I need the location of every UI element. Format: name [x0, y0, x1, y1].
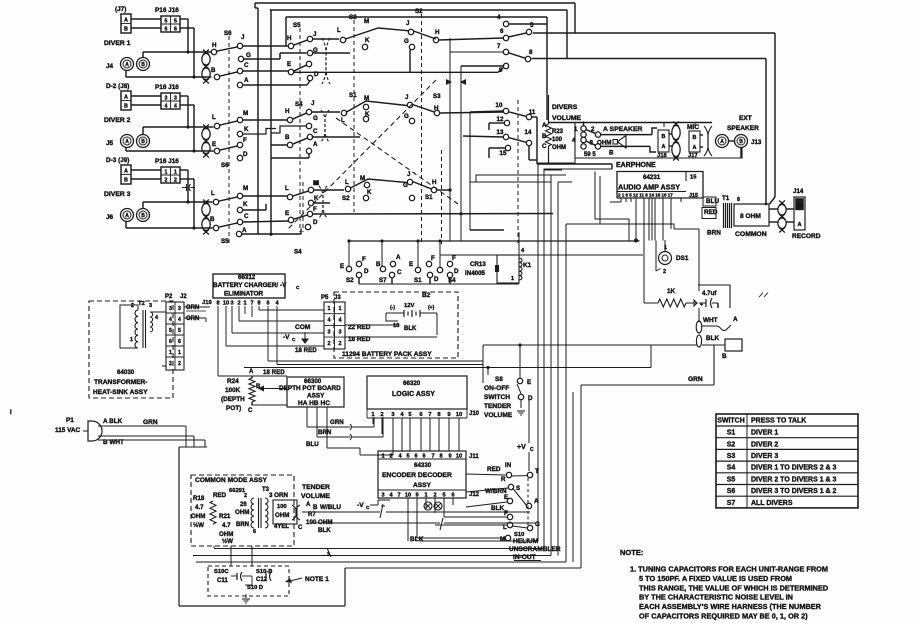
- svg-text:3: 3: [230, 301, 233, 307]
- svg-text:14: 14: [525, 129, 532, 136]
- svg-text:H: H: [287, 35, 292, 42]
- svg-text:W/BLU: W/BLU: [320, 504, 341, 511]
- svg-text:E: E: [287, 61, 291, 68]
- svg-text:8: 8: [439, 454, 442, 460]
- svg-text:GRN: GRN: [330, 419, 344, 426]
- svg-text:H: H: [212, 42, 217, 49]
- svg-text:7: 7: [497, 43, 501, 50]
- svg-text:2: 2: [339, 341, 342, 347]
- svg-text:B: B: [376, 261, 381, 268]
- svg-text:9: 9: [415, 493, 418, 499]
- svg-text:ELIMINATOR: ELIMINATOR: [224, 291, 264, 298]
- svg-text:SPEAKER: SPEAKER: [727, 125, 759, 132]
- svg-text:J4: J4: [106, 63, 114, 70]
- svg-text:1: 1: [178, 350, 181, 356]
- svg-text:K: K: [367, 189, 372, 196]
- svg-text:J19: J19: [202, 300, 212, 306]
- svg-text:ENCODER DECODER: ENCODER DECODER: [382, 472, 452, 479]
- svg-text:B: B: [722, 353, 727, 360]
- svg-text:18 RED: 18 RED: [295, 347, 317, 354]
- svg-text:P16 J16: P16 J16: [155, 158, 179, 165]
- svg-text:B: B: [141, 213, 145, 219]
- svg-text:VOLUME: VOLUME: [301, 493, 331, 500]
- svg-text:DIVER 2 TO DIVERS 1 & 3: DIVER 2 TO DIVERS 1 & 3: [751, 476, 837, 483]
- svg-text:A: A: [313, 141, 318, 148]
- svg-text:OHM: OHM: [191, 513, 205, 520]
- svg-text:B: B: [124, 104, 128, 110]
- svg-text:G: G: [535, 521, 540, 528]
- svg-text:OHM: OHM: [552, 145, 566, 151]
- svg-text:P16 J16: P16 J16: [155, 84, 179, 91]
- svg-text:3: 3: [165, 96, 168, 102]
- svg-text:S1: S1: [727, 430, 736, 437]
- svg-text:ORN: ORN: [186, 305, 199, 311]
- svg-text:7: 7: [428, 412, 431, 418]
- svg-text:D-3 (J9): D-3 (J9): [106, 157, 129, 164]
- svg-text:2: 2: [433, 493, 436, 499]
- svg-text:D-2 (J8): D-2 (J8): [106, 83, 129, 90]
- svg-text:64231: 64231: [643, 174, 661, 181]
- svg-text:66300: 66300: [304, 378, 322, 385]
- svg-text:M: M: [243, 185, 248, 192]
- svg-text:GRN: GRN: [143, 419, 158, 426]
- svg-text:A: A: [242, 227, 247, 234]
- svg-text:4: 4: [497, 14, 501, 21]
- svg-text:115 VAC: 115 VAC: [55, 427, 80, 434]
- svg-text:W/BRN: W/BRN: [485, 488, 507, 495]
- svg-text:BLK: BLK: [706, 335, 720, 342]
- svg-text:A: A: [534, 498, 539, 505]
- svg-text:6: 6: [451, 493, 454, 499]
- svg-text:½W: ½W: [222, 538, 233, 545]
- svg-text:ORN: ORN: [186, 316, 199, 322]
- svg-text:B: B: [662, 134, 666, 140]
- svg-text:A SPEAKER: A SPEAKER: [603, 126, 642, 133]
- svg-text:2: 2: [237, 301, 240, 307]
- svg-text:R24: R24: [227, 378, 239, 385]
- svg-text:E: E: [409, 261, 413, 268]
- svg-text:LOGIC ASSY: LOGIC ASSY: [392, 391, 435, 398]
- svg-text:DEPTH POT BOARD: DEPTH POT BOARD: [279, 385, 341, 392]
- svg-text:1: 1: [174, 170, 177, 176]
- svg-text:J13: J13: [751, 139, 762, 146]
- svg-text:A: A: [306, 502, 311, 508]
- svg-text:POT): POT): [226, 405, 241, 412]
- svg-text:ASSY: ASSY: [413, 482, 432, 489]
- svg-text:BLU: BLU: [306, 441, 319, 448]
- svg-text:TRANSFORMER-: TRANSFORMER-: [94, 379, 147, 386]
- svg-text:HELIUM: HELIUM: [513, 538, 539, 545]
- svg-text:T2: T2: [138, 301, 145, 307]
- svg-text:1: 1: [243, 301, 246, 307]
- svg-text:2 1 8 5 12 11 8 14 16 16 17: 2 1 8 5 12 11 8 14 16 16 17: [618, 193, 673, 198]
- svg-text:S4: S4: [294, 249, 302, 256]
- svg-text:B: B: [798, 203, 802, 209]
- svg-text:S2: S2: [415, 8, 423, 15]
- svg-text:A: A: [733, 316, 738, 323]
- svg-text:BLK: BLK: [491, 505, 505, 512]
- svg-text:EARPHONE: EARPHONE: [616, 162, 656, 169]
- svg-text:5: 5: [530, 22, 534, 29]
- svg-text:S1: S1: [349, 92, 357, 99]
- svg-text:B: B: [693, 135, 697, 141]
- svg-text:8 OHM: 8 OHM: [740, 213, 761, 220]
- svg-text:A: A: [124, 18, 128, 24]
- svg-text:A: A: [720, 139, 724, 145]
- svg-text:7: 7: [250, 301, 253, 307]
- svg-text:(DEPTH: (DEPTH: [221, 396, 245, 403]
- svg-text:P5: P5: [321, 295, 329, 301]
- svg-text:59 5: 59 5: [584, 152, 596, 158]
- svg-text:-V: -V: [283, 334, 290, 341]
- svg-text:5: 5: [406, 454, 409, 460]
- svg-text:R23: R23: [552, 129, 564, 135]
- svg-text:100K: 100K: [225, 387, 241, 394]
- svg-text:4.7uf: 4.7uf: [702, 290, 717, 297]
- svg-text:J6: J6: [106, 214, 114, 221]
- svg-text:F: F: [431, 255, 435, 262]
- svg-text:2: 2: [244, 493, 247, 499]
- svg-text:A BLK: A BLK: [103, 418, 123, 425]
- svg-text:66320: 66320: [403, 380, 421, 387]
- svg-text:BY THE CHARACTERISTIC NOISE LE: BY THE CHARACTERISTIC NOISE LEVEL IN: [639, 593, 793, 602]
- svg-text:CR13: CR13: [470, 261, 486, 268]
- svg-text:S5: S5: [727, 476, 736, 483]
- svg-text:3: 3: [328, 329, 331, 335]
- svg-text:K: K: [365, 37, 370, 44]
- svg-text:(-): (-): [390, 305, 395, 311]
- svg-text:64330: 64330: [414, 462, 432, 469]
- svg-text:G: G: [404, 38, 409, 45]
- svg-text:IN4005: IN4005: [465, 270, 486, 277]
- svg-text:M: M: [500, 536, 505, 543]
- svg-text:13: 13: [497, 129, 504, 136]
- svg-text:B: B: [124, 178, 128, 184]
- svg-text:26: 26: [240, 502, 247, 508]
- svg-text:4: 4: [155, 315, 158, 321]
- svg-text:6: 6: [165, 27, 168, 33]
- svg-text:2: 2: [165, 178, 168, 184]
- svg-text:DIVER 2: DIVER 2: [751, 441, 778, 448]
- svg-text:BLK: BLK: [318, 527, 331, 534]
- svg-text:BRN: BRN: [236, 522, 249, 528]
- svg-text:D: D: [313, 219, 318, 226]
- svg-text:S10 D: S10 D: [247, 585, 263, 591]
- svg-text:M: M: [243, 110, 248, 117]
- svg-text:R: R: [501, 476, 506, 483]
- svg-text:S7: S7: [727, 500, 736, 507]
- svg-text:J: J: [405, 94, 409, 101]
- svg-text:T: T: [535, 468, 539, 475]
- svg-text:G: G: [313, 115, 318, 122]
- svg-text:2: 2: [131, 303, 134, 309]
- svg-text:E: E: [340, 263, 344, 270]
- svg-text:ON-OFF: ON-OFF: [484, 385, 509, 392]
- svg-text:C: C: [248, 408, 253, 414]
- svg-text:R18: R18: [193, 495, 205, 502]
- svg-text:10: 10: [456, 412, 462, 418]
- svg-text:A: A: [124, 95, 128, 101]
- svg-text:C: C: [530, 447, 534, 453]
- svg-text:J: J: [313, 31, 317, 38]
- svg-text:NOTE 1: NOTE 1: [305, 576, 329, 583]
- svg-text:A: A: [124, 169, 128, 175]
- svg-text:11294 BATTERY PACK ASSY: 11294 BATTERY PACK ASSY: [342, 351, 432, 358]
- svg-text:4.7: 4.7: [195, 504, 204, 511]
- svg-text:S6: S6: [727, 488, 736, 495]
- svg-text:F: F: [243, 137, 247, 144]
- svg-text:8: 8: [216, 301, 219, 307]
- svg-text:TENDER: TENDER: [302, 484, 330, 491]
- svg-text:M: M: [364, 18, 369, 25]
- svg-text:C: C: [366, 505, 370, 511]
- svg-text:3: 3: [178, 306, 181, 312]
- svg-text:4: 4: [178, 317, 181, 323]
- svg-text:J10: J10: [469, 411, 480, 417]
- svg-text:AUDIO AMP ASSY: AUDIO AMP ASSY: [618, 183, 680, 192]
- svg-text:6: 6: [174, 27, 177, 33]
- svg-text:RECORD: RECORD: [792, 233, 821, 240]
- svg-text:64030: 64030: [117, 369, 135, 376]
- svg-text:L: L: [345, 179, 349, 186]
- svg-text:S3: S3: [727, 453, 736, 460]
- svg-text:J: J: [406, 20, 410, 27]
- svg-text:S6: S6: [221, 162, 229, 169]
- svg-text:J: J: [407, 171, 411, 178]
- svg-text:(+): (+): [428, 305, 435, 311]
- svg-text:6: 6: [169, 339, 172, 345]
- svg-text:M: M: [313, 180, 318, 187]
- svg-text:66312: 66312: [238, 274, 256, 281]
- svg-text:B: B: [210, 216, 215, 223]
- svg-text:SWITCH: SWITCH: [484, 394, 510, 401]
- svg-text:BLK: BLK: [410, 536, 424, 543]
- svg-text:J5: J5: [106, 140, 114, 147]
- svg-text:K: K: [244, 126, 249, 133]
- svg-text:G: G: [404, 113, 409, 120]
- svg-text:4: 4: [339, 318, 342, 324]
- svg-text:1: 1: [511, 276, 514, 282]
- svg-text:9: 9: [499, 67, 503, 74]
- svg-text:MIC: MIC: [687, 124, 699, 131]
- svg-text:1: 1: [381, 454, 384, 460]
- svg-text:L: L: [212, 114, 216, 121]
- svg-text:P16 J16: P16 J16: [155, 7, 179, 14]
- svg-text:R21: R21: [219, 513, 231, 520]
- svg-text:1: 1: [328, 306, 331, 312]
- svg-text:S1: S1: [425, 194, 433, 201]
- svg-text:J2: J2: [180, 294, 187, 300]
- svg-text:K1: K1: [523, 262, 532, 269]
- svg-text:5: 5: [178, 328, 181, 334]
- svg-text:2: 2: [174, 178, 177, 184]
- svg-text:A: A: [797, 222, 801, 228]
- svg-text:COM: COM: [295, 324, 311, 331]
- svg-text:B2: B2: [422, 292, 431, 299]
- svg-text:S4: S4: [448, 277, 456, 284]
- svg-text:+V: +V: [517, 444, 526, 451]
- svg-text:15: 15: [690, 175, 697, 181]
- svg-text:GRN: GRN: [688, 376, 703, 383]
- svg-text:H: H: [435, 29, 440, 36]
- svg-text:J18: J18: [657, 153, 667, 159]
- svg-text:COMMON MODE ASSY: COMMON MODE ASSY: [195, 477, 268, 484]
- svg-text:L: L: [211, 190, 215, 197]
- svg-text:S2: S2: [342, 195, 350, 202]
- svg-text:D: D: [434, 276, 439, 283]
- svg-text:A: A: [125, 213, 129, 219]
- svg-text:HEAT-SINK ASSY: HEAT-SINK ASSY: [93, 389, 148, 396]
- svg-text:E: E: [527, 379, 531, 386]
- svg-text:2: 2: [328, 341, 331, 347]
- svg-text:A: A: [662, 144, 666, 150]
- svg-text:RED: RED: [213, 492, 227, 499]
- svg-text:C: C: [397, 269, 402, 276]
- svg-text:S2: S2: [727, 441, 736, 448]
- svg-text:2: 2: [380, 412, 383, 418]
- svg-text:A: A: [125, 62, 129, 68]
- svg-text:THIS RANGE, THE VALUE OF WHICH: THIS RANGE, THE VALUE OF WHICH IS DETERM…: [639, 583, 828, 592]
- svg-text:5: 5: [169, 328, 172, 334]
- svg-text:D: D: [364, 268, 369, 275]
- svg-text:S: S: [516, 485, 520, 492]
- svg-text:J12: J12: [469, 492, 480, 498]
- svg-text:100: 100: [277, 504, 287, 510]
- svg-text:E: E: [285, 210, 289, 217]
- svg-text:3: 3: [149, 303, 152, 309]
- svg-text:D: D: [243, 151, 248, 158]
- svg-text:H: H: [285, 108, 290, 115]
- svg-text:COMMON: COMMON: [735, 231, 767, 238]
- svg-text:6: 6: [422, 454, 425, 460]
- svg-text:6: 6: [178, 339, 181, 345]
- svg-text:S4: S4: [727, 465, 736, 472]
- svg-text:OHM: OHM: [275, 512, 289, 519]
- svg-text:S6: S6: [224, 30, 232, 37]
- svg-text:1: 1: [130, 337, 133, 343]
- svg-text:D: D: [454, 268, 459, 275]
- svg-text:B: B: [141, 62, 145, 68]
- svg-text:T1: T1: [722, 195, 730, 202]
- svg-text:VOLUME: VOLUME: [484, 412, 513, 419]
- svg-text:BLK: BLK: [404, 326, 417, 332]
- svg-text:L: L: [285, 185, 289, 192]
- svg-text:10: 10: [496, 102, 503, 109]
- svg-text:C: C: [244, 213, 249, 220]
- svg-text:8: 8: [257, 301, 260, 307]
- svg-text:C11: C11: [217, 578, 228, 584]
- svg-text:8: 8: [737, 197, 740, 203]
- svg-text:15: 15: [500, 150, 507, 157]
- svg-text:B: B: [313, 504, 318, 511]
- svg-text:1. TUNING CAPACITORS FOR EACH: 1. TUNING CAPACITORS FOR EACH UNIT-RANGE…: [630, 565, 828, 574]
- svg-text:F: F: [452, 255, 456, 262]
- svg-text:4: 4: [169, 317, 172, 323]
- svg-text:DIVER 1: DIVER 1: [751, 430, 778, 437]
- svg-text:EACH ASSEMBLY'S WIRE HARNESS (: EACH ASSEMBLY'S WIRE HARNESS (THE NUMBER: [639, 602, 822, 611]
- svg-text:HA HB HC: HA HB HC: [298, 400, 330, 407]
- svg-text:A: A: [396, 254, 401, 261]
- svg-text:3: 3: [174, 96, 177, 102]
- svg-text:A: A: [249, 369, 254, 375]
- svg-text:4: 4: [328, 318, 331, 324]
- svg-text:E: E: [504, 494, 508, 501]
- svg-text:H: H: [432, 179, 437, 186]
- svg-text:TENDER: TENDER: [484, 403, 511, 410]
- svg-text:ASSY: ASSY: [307, 393, 325, 400]
- svg-text:B: B: [141, 139, 145, 145]
- svg-text:A: A: [125, 139, 129, 145]
- svg-text:S1: S1: [414, 277, 422, 284]
- svg-text:A: A: [693, 145, 697, 151]
- svg-text:5 TO 150PF. A FIXED VALUE IS: 5 TO 150PF. A FIXED VALUE IS USED FROM: [639, 574, 792, 583]
- svg-text:(J7): (J7): [115, 6, 126, 13]
- svg-text:DIVER 3: DIVER 3: [104, 191, 131, 198]
- svg-text:BLU: BLU: [706, 198, 720, 205]
- svg-text:DIVER 2: DIVER 2: [104, 117, 131, 124]
- svg-text:C: C: [542, 143, 547, 150]
- svg-text:P2: P2: [165, 294, 173, 300]
- svg-text:2: 2: [178, 361, 181, 367]
- svg-text:8: 8: [529, 49, 533, 56]
- svg-text:4: 4: [165, 104, 168, 110]
- svg-text:UNSCRAMBLER: UNSCRAMBLER: [509, 546, 561, 553]
- svg-text:3: 3: [339, 329, 342, 335]
- svg-text:18: 18: [393, 323, 400, 329]
- svg-text:OHM: OHM: [235, 509, 249, 516]
- svg-text:1K: 1K: [667, 288, 676, 295]
- svg-text:S5: S5: [221, 238, 229, 245]
- svg-text:F: F: [504, 510, 508, 517]
- svg-text:R7: R7: [308, 512, 316, 518]
- svg-text:7: 7: [397, 493, 400, 499]
- svg-text:6: 6: [266, 301, 269, 307]
- svg-text:A: A: [244, 77, 249, 84]
- svg-text:S4: S4: [295, 101, 303, 108]
- svg-text:OHM: OHM: [597, 140, 611, 147]
- svg-text:-V: -V: [357, 502, 364, 509]
- svg-text:WHT: WHT: [703, 317, 718, 324]
- svg-text:7: 7: [431, 454, 434, 460]
- svg-text:DIVER 3 TO DIVERS 1 & 2: DIVER 3 TO DIVERS 1 & 2: [751, 488, 837, 495]
- svg-text:½W: ½W: [193, 522, 204, 529]
- svg-text:6: 6: [414, 454, 417, 460]
- svg-text:1: 1: [339, 306, 342, 312]
- svg-text:DIVERS: DIVERS: [552, 104, 578, 111]
- svg-text:S2: S2: [346, 277, 354, 284]
- svg-text:6: 6: [500, 28, 504, 35]
- svg-text:1: 1: [165, 170, 168, 176]
- svg-text:PRESS TO TALK: PRESS TO TALK: [751, 418, 806, 425]
- svg-text:10: 10: [405, 493, 411, 499]
- svg-text:10: 10: [456, 454, 462, 460]
- svg-text:4: 4: [174, 104, 177, 110]
- svg-text:5: 5: [442, 493, 445, 499]
- svg-text:12V: 12V: [404, 303, 414, 309]
- svg-text:1: 1: [424, 493, 427, 499]
- svg-text:5: 5: [174, 19, 177, 25]
- svg-text:EXT: EXT: [739, 115, 752, 122]
- svg-text:DIVER 1: DIVER 1: [104, 40, 131, 47]
- svg-text:3: 3: [169, 306, 172, 312]
- svg-text:B: B: [739, 139, 743, 145]
- svg-text:P1: P1: [66, 417, 74, 424]
- svg-text:4.7: 4.7: [222, 522, 231, 529]
- svg-text:4YEL: 4YEL: [274, 524, 289, 530]
- svg-text:L: L: [337, 27, 341, 34]
- svg-text:9: 9: [448, 454, 451, 460]
- svg-text:OHM: OHM: [219, 531, 233, 538]
